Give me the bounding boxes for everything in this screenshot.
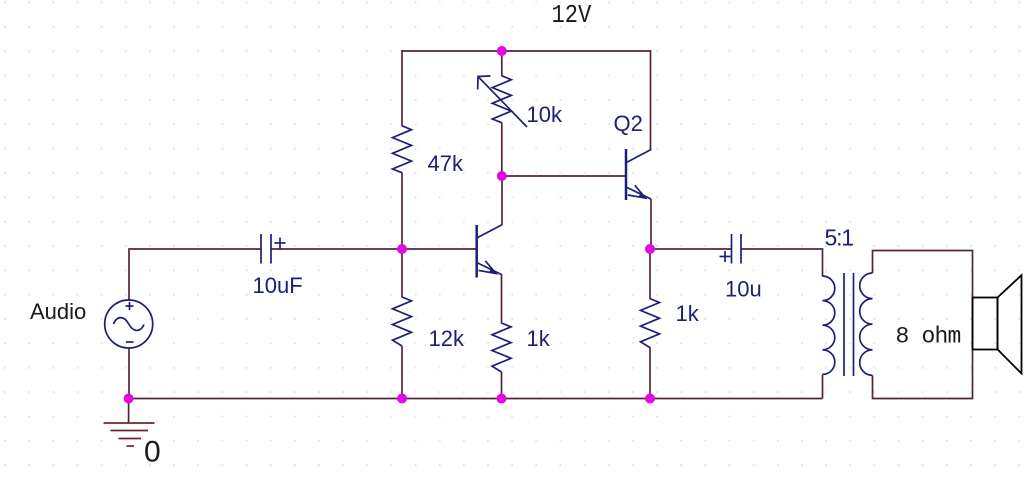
wire Q2 collector to top rail [650,50,652,150]
wire 12k bottom to ground rail [401,346,403,399]
svg-text:5:1: 5:1 [825,225,854,251]
svg-text:12V: 12V [552,2,592,31]
wire ground node to ground symbol [128,399,130,423]
wire top rail 12V [402,50,651,52]
svg-text:Audio: Audio [30,299,86,324]
svg-text:10k: 10k [527,102,563,127]
node Q1 base / divider [397,244,407,254]
capacitor C2 10u [731,234,733,264]
node ground 12k [397,394,407,404]
resistor R6 1k [641,299,660,348]
wire collector node to Q2 base [502,175,626,177]
ground [104,423,155,446]
wire bottom ground rail [129,398,823,400]
transformer TX1 core [843,273,845,376]
wire input node to 12k top [401,249,403,298]
speaker [973,275,1022,373]
svg-text:1k: 1k [527,326,551,351]
node Q1 collector / Q2 base [497,171,507,181]
wire audio to cap row [129,249,261,301]
svg-text:8 ohm: 8 ohm [896,324,961,350]
svg-text:10u: 10u [725,277,762,302]
8 ohm load box [873,251,973,399]
node ground 1k [497,394,507,404]
wire audio bottom to ground node [128,348,130,399]
source V1 Audio [105,300,153,348]
wire 1k bottom to ground rail [501,372,503,399]
wire Q1 emitter to 1k [501,274,503,324]
svg-text:0: 0 [144,436,161,469]
wire collector node to Q1 collector [501,176,503,225]
wire Q2 emitter to node [650,199,652,249]
resistor R2 12k [393,297,412,346]
wire cap to input node [271,248,477,250]
node Q2 emitter [645,244,655,254]
resistor R4 1k [492,323,511,372]
wire Q2 emitter node to 10u cap [650,248,732,250]
transistor Q2 [625,149,628,200]
wire 10k pot top lead [501,50,503,76]
capacitor C1 10uF [260,234,262,264]
wire 10k pot bottom to collector node [501,123,503,177]
transformer TX1 primary coil [823,276,835,374]
resistor R1 47k [393,126,412,173]
wire Q2 1k bottom to ground rail [649,348,651,400]
node ground audio [124,394,134,404]
wire transformer primary bottom lead [822,375,824,399]
wire 47k bottom to input node [401,173,403,250]
svg-text:1k: 1k [676,301,700,326]
node ground Q2 1k [645,394,655,404]
potentiometer 10k [492,76,511,123]
svg-text:12k: 12k [429,326,465,351]
wire 47k top lead [401,50,403,126]
transistor Q1 [475,225,478,278]
wire 10u cap to transformer primary [741,249,823,277]
transformer TX1 secondary coil [860,273,873,375]
svg-text:10uF: 10uF [253,273,303,298]
node 12V rail / pot [497,46,507,56]
svg-text:47k: 47k [428,151,464,176]
svg-text:Q2: Q2 [614,111,643,136]
wire node to Q2 1k resistor [649,249,651,299]
